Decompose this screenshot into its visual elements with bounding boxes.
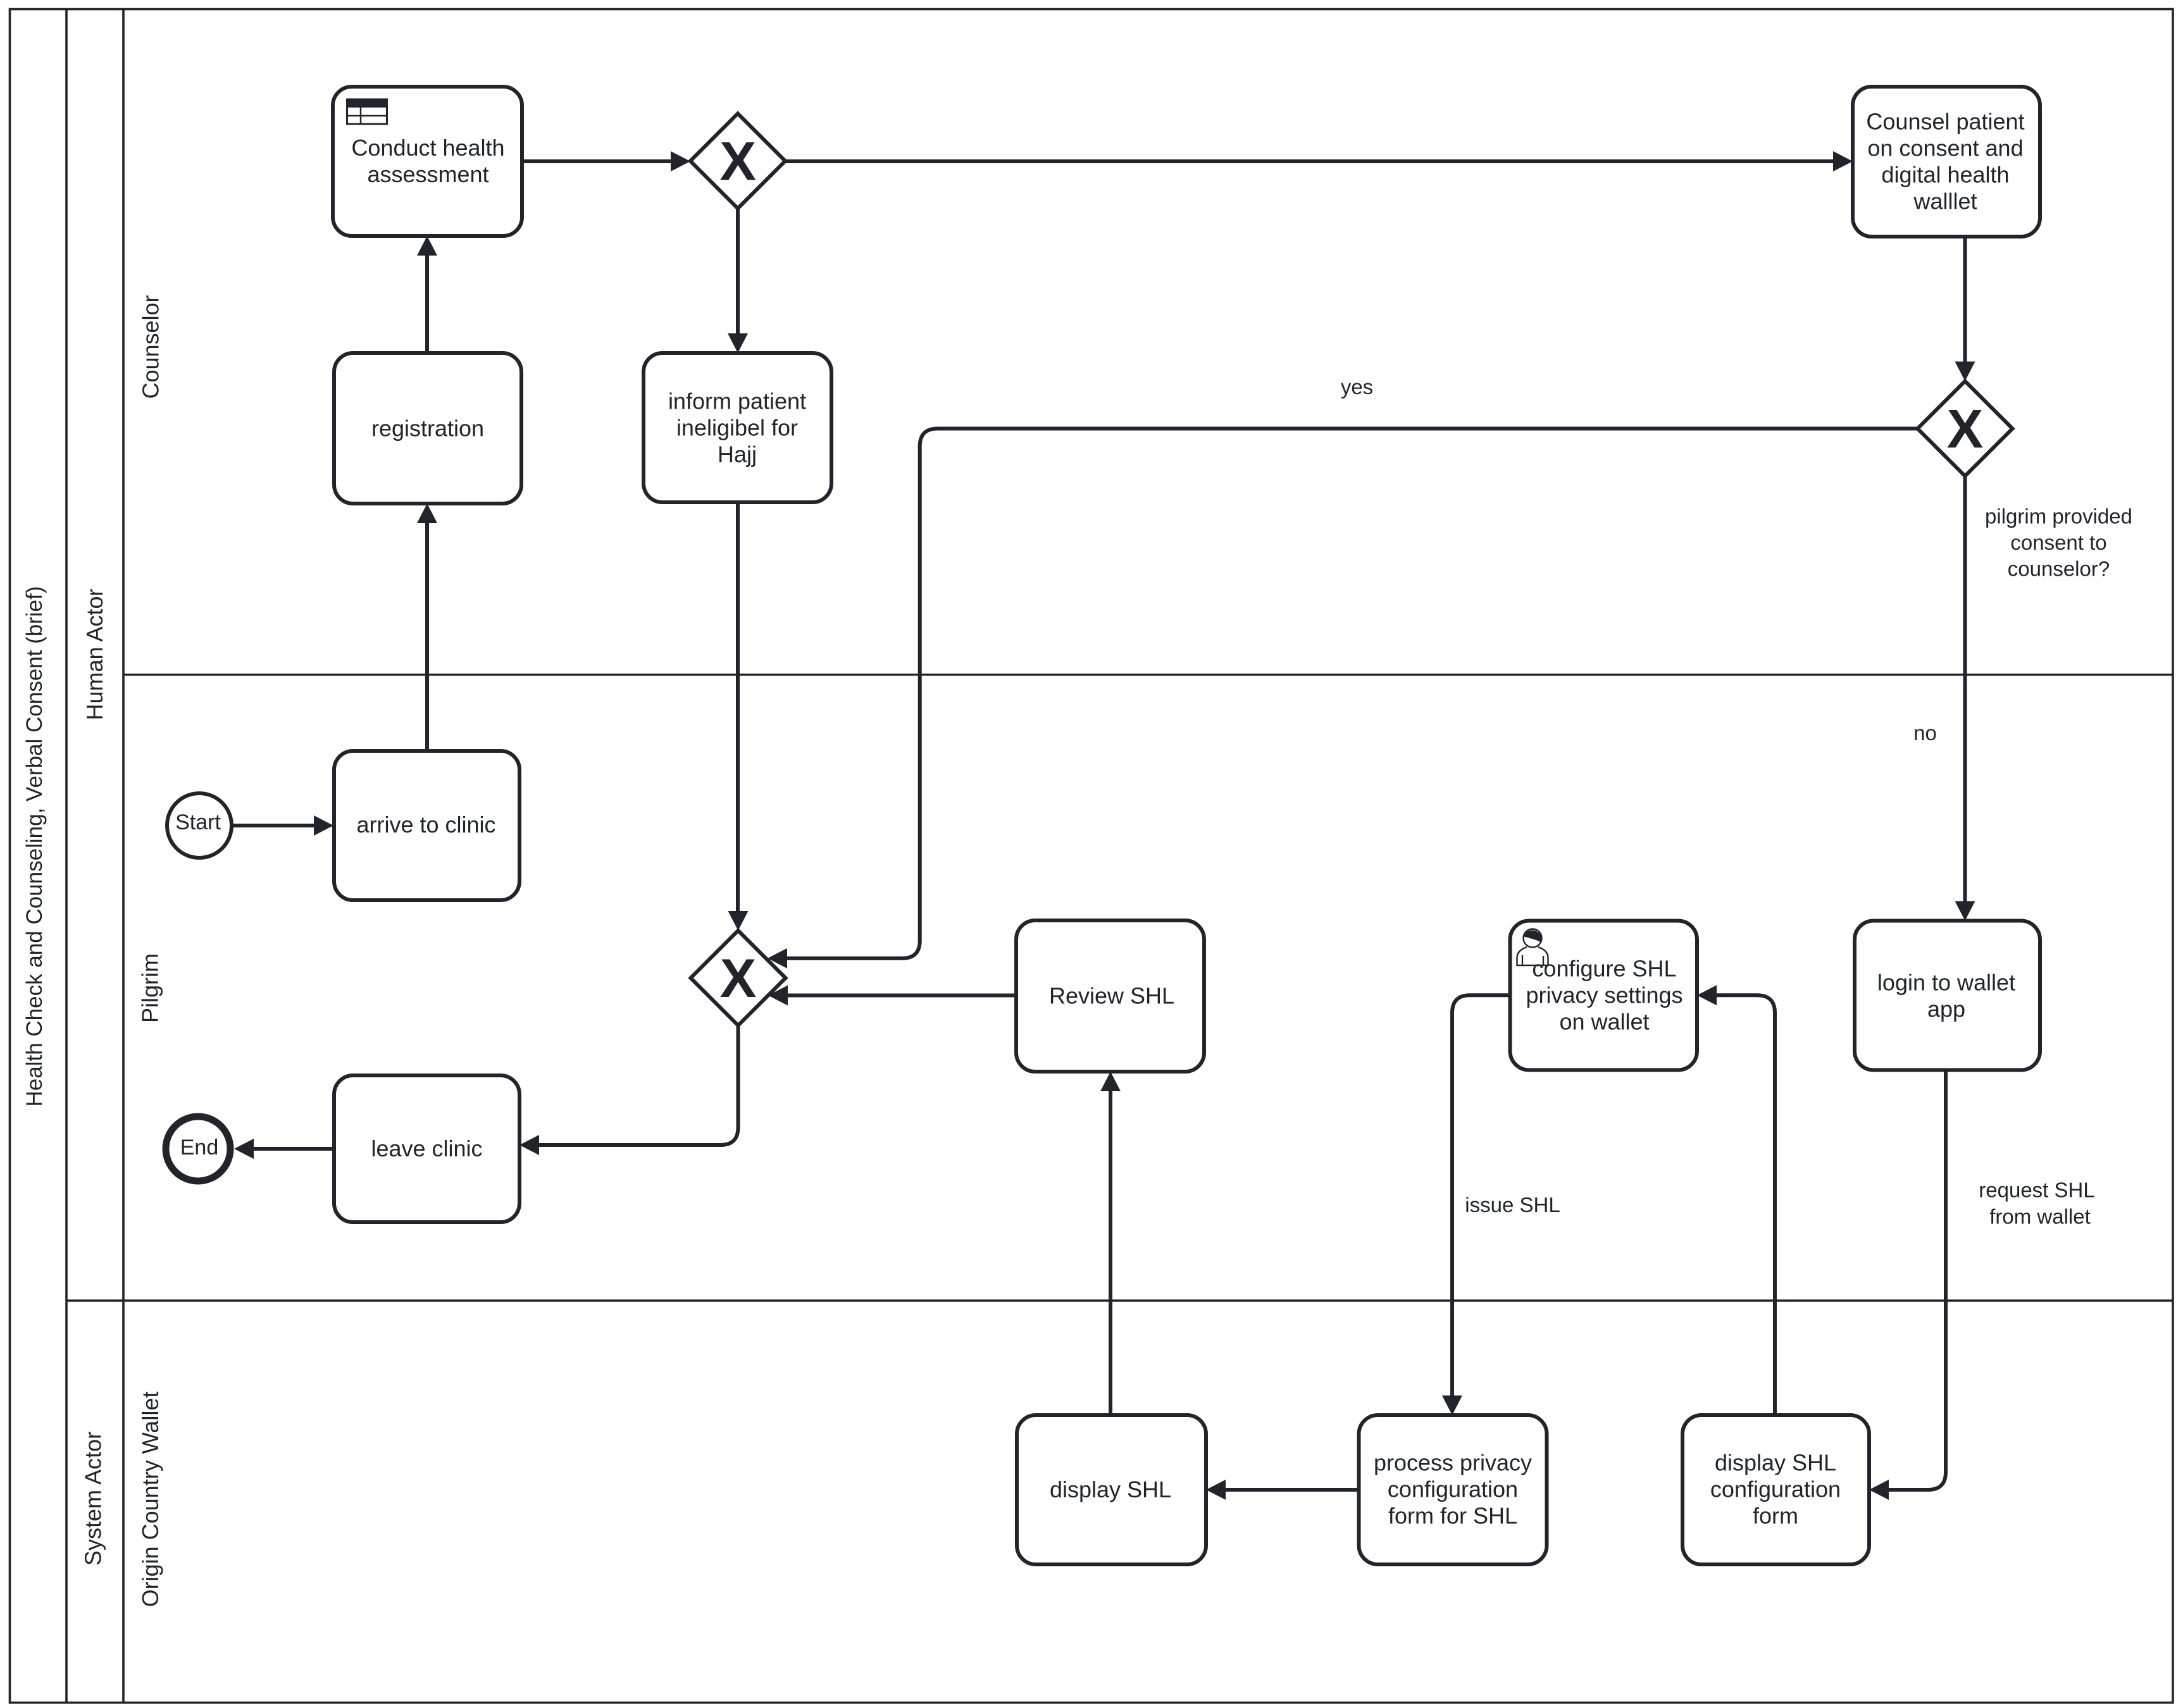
svg-text:inform patient: inform patient <box>668 388 806 414</box>
svg-text:form for SHL: form for SHL <box>1388 1503 1517 1529</box>
lane divider: Human Actor / System Actor <box>66 1299 2173 1302</box>
flow: G1 -> Counsel patient (top long arrow) <box>785 151 1853 171</box>
flow: inform patient -> G3 <box>728 502 749 931</box>
flow: Conduct health assessment -> G1 <box>522 151 690 171</box>
svg-text:assessment: assessment <box>367 161 488 187</box>
task: configure SHL privacy settings on wallet <box>1510 921 1698 1070</box>
flow: configure SHL -> process privacy configuration form (issue SHL) <box>1442 995 1510 1415</box>
flow: process privacy -> display SHL <box>1206 1480 1359 1500</box>
lane divider: Counselor / Pilgrim <box>123 674 2173 676</box>
business-rule icon on Conduct health assessment <box>347 99 387 124</box>
flow: registration -> Conduct health assessment <box>417 236 437 353</box>
svg-text:Hajj: Hajj <box>718 442 757 467</box>
svg-text:arrive to clinic: arrive to clinic <box>356 812 495 838</box>
flow: G2 no -> login to wallet app <box>1955 476 1975 921</box>
start event <box>167 793 232 858</box>
flow: arrive to clinic -> registration <box>417 504 437 751</box>
flow: G1 -> inform patient ineligibel for Hajj <box>728 209 748 354</box>
svg-text:on wallet: on wallet <box>1559 1009 1649 1035</box>
label: request SHL from wallet <box>1979 1179 2094 1228</box>
task: Counsel patient on consent and digital health walllet <box>1853 87 2040 237</box>
svg-text:Counsel patient: Counsel patient <box>1866 109 2024 135</box>
svg-text:walllet: walllet <box>1913 189 1977 214</box>
flow: Start -> arrive to clinic <box>232 815 333 836</box>
svg-text:Human Actor: Human Actor <box>82 588 108 720</box>
svg-text:process privacy: process privacy <box>1374 1450 1532 1476</box>
flow: Review SHL -> G3 <box>768 986 1016 1006</box>
svg-text:configuration: configuration <box>1710 1476 1841 1502</box>
svg-text:configure SHL: configure SHL <box>1532 956 1676 982</box>
flow: display SHL configuration form -> configure SHL privacy settings <box>1697 985 1775 1415</box>
svg-text:X: X <box>719 132 756 192</box>
svg-text:End: End <box>180 1136 219 1160</box>
gateway G1 (exclusive, after Conduct health assessment) <box>690 114 785 209</box>
task: Review SHL <box>1016 920 1204 1072</box>
svg-text:digital health: digital health <box>1881 162 2009 188</box>
svg-text:configuration: configuration <box>1388 1476 1518 1502</box>
svg-text:login to wallet: login to wallet <box>1877 970 2015 996</box>
task: arrive to clinic <box>334 751 519 900</box>
svg-text:Start: Start <box>175 810 221 834</box>
svg-text:on consent and: on consent and <box>1867 135 2023 161</box>
svg-text:X: X <box>1947 399 1984 460</box>
svg-text:leave clinic: leave clinic <box>371 1136 482 1161</box>
svg-text:form: form <box>1753 1503 1798 1529</box>
svg-text:registration: registration <box>371 416 484 442</box>
flow: G2 yes -> G3 <box>768 429 1918 968</box>
task: registration <box>334 353 521 504</box>
label: pilgrim provided consent to counselor? <box>1985 505 2132 581</box>
task: inform patient ineligibel for Hajj <box>644 353 831 502</box>
svg-text:counselor?: counselor? <box>2008 557 2110 581</box>
task: display SHL configuration form <box>1682 1415 1869 1564</box>
svg-text:System Actor: System Actor <box>80 1432 106 1566</box>
svg-text:request SHL: request SHL <box>1979 1179 2094 1202</box>
flow: leave clinic -> End <box>234 1139 334 1159</box>
svg-text:issue SHL: issue SHL <box>1465 1193 1560 1216</box>
task: login to wallet app <box>1855 921 2040 1070</box>
svg-text:Review SHL: Review SHL <box>1049 983 1174 1009</box>
svg-text:yes: yes <box>1341 375 1373 399</box>
flow: login -> display SHL configuration form (request SHL from wallet) <box>1869 1070 1946 1501</box>
task: process privacy configuration form for SHL <box>1359 1415 1547 1564</box>
end event <box>166 1117 230 1181</box>
user icon on configure SHL task <box>1517 929 1548 966</box>
svg-text:pilgrim provided: pilgrim provided <box>1985 505 2132 528</box>
svg-text:Origin Country Wallet: Origin Country Wallet <box>137 1392 163 1607</box>
gateway G2 (pilgrim provided consent to counselor?) <box>1918 381 2013 476</box>
flow: Counsel patient -> G2 <box>1955 237 1975 381</box>
svg-text:Conduct health: Conduct health <box>351 135 504 161</box>
flow: display SHL -> Review SHL <box>1100 1072 1121 1415</box>
svg-text:from wallet: from wallet <box>1989 1205 2091 1228</box>
svg-text:X: X <box>720 948 757 1009</box>
svg-text:display SHL: display SHL <box>1715 1450 1836 1476</box>
svg-text:display SHL: display SHL <box>1050 1476 1171 1502</box>
svg-text:Health Check and Counseling, V: Health Check and Counseling, Verbal Cons… <box>22 586 47 1107</box>
flow: G3 -> leave clinic <box>519 1025 738 1155</box>
svg-text:Pilgrim: Pilgrim <box>137 953 163 1023</box>
svg-text:Counselor: Counselor <box>138 295 164 399</box>
task: leave clinic <box>334 1075 519 1222</box>
gateway G3 (merge in Pilgrim lane) <box>691 931 786 1025</box>
svg-text:app: app <box>1927 996 1965 1022</box>
svg-text:ineligibel for: ineligibel for <box>676 415 798 441</box>
svg-text:consent to: consent to <box>2010 531 2106 554</box>
task: Conduct health assessment <box>333 87 522 236</box>
task: display SHL <box>1017 1415 1206 1564</box>
svg-text:no: no <box>1913 721 1937 745</box>
svg-text:privacy settings: privacy settings <box>1526 982 1682 1008</box>
